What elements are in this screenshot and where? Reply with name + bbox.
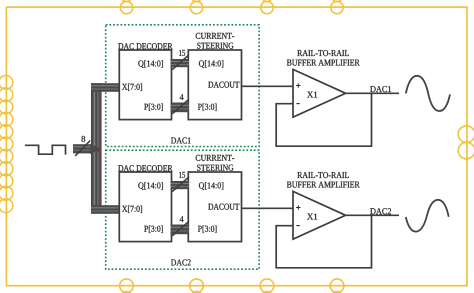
bus slash (4) [172,99,189,114]
DAC2 dashed boundary [106,150,259,269]
bus arm to DAC1 X[7:0] [91,83,120,92]
DAC1 dashed boundary [106,25,259,147]
text net DAC2 [370,208,391,214]
CURRENT-STEERING box (DAC1) [188,50,241,120]
clock input waveform [25,145,66,154]
text pin DACOUT (DAC1) [208,82,239,88]
output wire DAC1 [346,92,399,94]
input bus X[7:0] (8-bit) horizontal [73,144,92,153]
text STEERING label (DAC1) [197,43,233,49]
text DAC DECODER label (DAC2) [118,165,172,171]
text DAC DECODER label (DAC1) [118,43,172,49]
text pin Q[14:0] decoder (DAC1) [138,60,163,68]
text CURRENT- label (DAC1) [196,33,235,39]
bus Q[14:0] 15-bit between boxes (DAC1) [171,59,190,67]
text CURRENT- label (DAC2) [196,155,235,161]
sine wave DAC1 output [406,76,450,111]
text pin Q[14:0] decoder (DAC2) [138,182,163,190]
text X1 label (DAC1) [307,92,317,98]
sine wave DAC2 output (inverted) [406,200,449,232]
DAC DECODER box (DAC2) [119,172,171,242]
text pin P[3:0] steering (DAC2) [198,226,217,233]
text bus width 15 (DAC2) [179,172,185,178]
DAC DECODER box (DAC1) [119,50,171,120]
plus input mark [296,83,300,87]
text bus width 4 (DAC2) [180,216,184,222]
text BUFFER AMPLIFIER label (DAC2) [287,182,360,188]
text pin X[7:0] decoder (DAC2) [122,206,142,213]
text STEERING label (DAC2) [197,165,233,171]
output wire DAC2 [346,214,399,216]
bus arm to DAC2 X[7:0] [91,205,120,214]
plus input mark [296,205,300,209]
red stub at arrow tip [97,150,102,151]
CURRENT-STEERING box (DAC2) [188,172,241,242]
text pin Q[14:0] steering (DAC1) [199,60,223,68]
text BUFFER AMPLIFIER label (DAC1) [287,60,360,66]
text RAIL-TO-RAIL label (DAC1) [297,50,349,56]
text pin P[3:0] steering (DAC1) [198,104,217,111]
bus P[3:0] 4-bit between boxes (DAC1) [171,103,190,113]
wire DACOUT to amplifier (DAC1) [242,85,294,87]
bus P[3:0] 4-bit between boxes (DAC2) [171,225,190,235]
op-amp X1 (DAC1) [293,69,346,117]
bus slash (8) [75,141,90,157]
text boundary label DAC2 [171,259,191,265]
text bus width 8 [81,136,85,142]
pin rings bottom edge [120,279,344,293]
bus slash (4) [172,221,189,236]
pin rings right edge [458,126,474,159]
minus input mark [296,103,299,105]
pin ring chain left edge [0,76,13,213]
text pin P[3:0] decoder (DAC2) [144,226,163,233]
pin rings top edge [120,0,343,14]
feedback wire (DAC1) [276,93,371,146]
text pin Q[14:0] steering (DAC2) [199,182,223,190]
text bus width 4 (DAC1) [180,94,184,100]
text bus width 15 (DAC1) [179,50,185,56]
text boundary label DAC1 [171,137,191,143]
bus slash (15) [172,55,189,70]
feedback wire (DAC2) [276,215,371,267]
input bus arrowhead [91,144,101,155]
bus Q[14:0] 15-bit between boxes (DAC2) [171,181,190,189]
text pin X[7:0] decoder (DAC1) [122,84,142,91]
op-amp X1 (DAC2) [293,191,346,239]
text net DAC1 [370,86,391,92]
wire DACOUT to amplifier (DAC2) [242,207,294,209]
vertical bus trunk [91,83,102,213]
text pin DACOUT (DAC2) [208,204,239,210]
text pin P[3:0] decoder (DAC1) [144,104,163,111]
text RAIL-TO-RAIL label (DAC2) [297,172,349,178]
bus slash (15) [172,177,189,192]
minus input mark [296,225,299,227]
text X1 label (DAC2) [307,214,317,220]
